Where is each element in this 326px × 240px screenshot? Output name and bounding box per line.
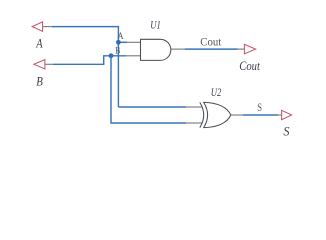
svg-text:A: A <box>35 37 42 51</box>
wire B to AND pin B <box>103 55 126 57</box>
wire B horizontal from port B <box>53 63 104 65</box>
wire B vertical <box>110 56 112 123</box>
wire B step vertical <box>103 56 105 65</box>
pin stub port B <box>45 63 53 65</box>
svg-text:U1: U1 <box>150 20 161 32</box>
pin U1 input A <box>127 41 141 43</box>
wire A horizontal from port A <box>52 26 119 28</box>
pin U2 input bottom <box>186 122 202 124</box>
wire Cout <box>185 48 238 50</box>
wire S <box>243 114 278 116</box>
wire A to AND pin A <box>118 41 127 43</box>
XOR gate U2 input arc <box>200 102 204 127</box>
svg-text:Cout: Cout <box>200 37 222 49</box>
pin U2 output <box>231 114 243 116</box>
svg-text:B: B <box>115 47 120 57</box>
node A junction <box>116 40 121 45</box>
input port arrow B <box>34 60 45 69</box>
svg-text:Cout: Cout <box>239 59 260 73</box>
XOR gate U2 body <box>204 102 231 127</box>
pin stub port S <box>278 114 282 116</box>
AND gate U1 <box>141 39 171 60</box>
output port arrow Cout <box>244 44 255 53</box>
pin stub port Cout <box>238 48 245 50</box>
svg-text:B: B <box>36 75 43 89</box>
svg-text:S: S <box>257 102 262 114</box>
pin U1 input B <box>126 55 141 57</box>
pin U2 input top <box>186 106 202 108</box>
svg-text:U2: U2 <box>211 87 222 99</box>
node B junction <box>109 53 114 58</box>
input port arrow A <box>32 22 42 31</box>
svg-text:A: A <box>118 32 124 42</box>
wire A vertical <box>117 26 119 107</box>
output port arrow S <box>282 110 292 119</box>
svg-text:S: S <box>283 124 290 138</box>
wire A to XOR top input <box>118 106 186 108</box>
pin stub port A <box>43 26 52 28</box>
wire B to XOR bottom input <box>110 122 186 124</box>
pin U1 output <box>171 48 185 50</box>
